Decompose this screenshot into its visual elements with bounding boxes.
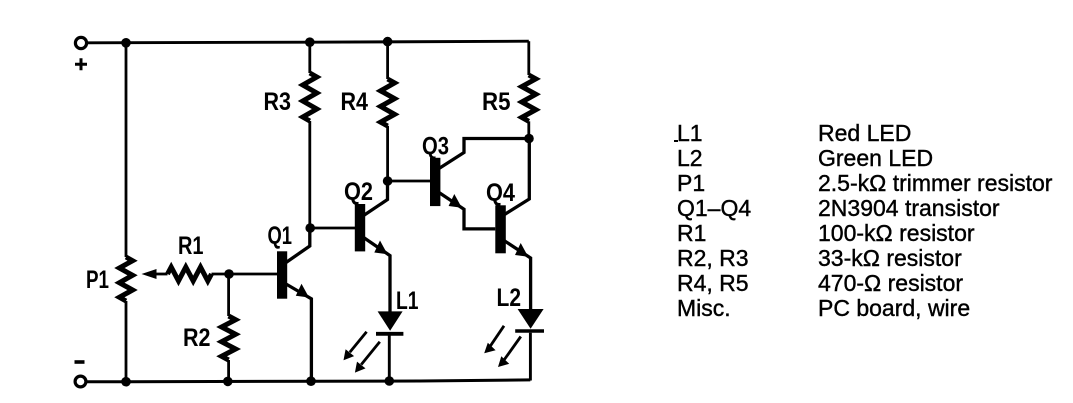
resistor R5 [522, 41, 536, 138]
wire left vertical lower [125, 301, 128, 382]
transistor Q3 [430, 139, 529, 229]
terminal + (positive supply) [75, 37, 87, 70]
node Q1 collector / Q2 base junction [305, 223, 315, 233]
wire top rail [87, 41, 529, 43]
LED L2 [484, 309, 544, 381]
transistor Q2 [355, 181, 390, 312]
potentiometer P1 [119, 257, 167, 301]
LED L1 [344, 311, 404, 381]
node Q2 collector / Q3 base junction [383, 176, 393, 186]
terminal - (negative supply) [75, 362, 86, 387]
svg-text:Q3: Q3 [422, 133, 449, 161]
svg-text:R2: R2 [183, 324, 211, 352]
svg-text:R4: R4 [341, 88, 369, 116]
resistor R1 [168, 267, 278, 281]
scan speck before L1 [674, 140, 679, 142]
wire Q3 base [388, 180, 431, 183]
node bottom-left junction [121, 377, 131, 387]
node top R3 junction [305, 37, 315, 47]
resistor R3 [303, 42, 317, 228]
node top R4 junction [383, 37, 393, 47]
wire Q2 base [310, 227, 355, 230]
transistor Q4 [495, 139, 530, 310]
svg-text:R5: R5 [482, 88, 511, 116]
node bottom Q1 emitter junction [306, 376, 316, 386]
transistor Q1 [277, 228, 311, 381]
wire bottom rail [86, 380, 530, 382]
node R5/Q3/Q4 collector junction [524, 134, 534, 144]
svg-text:R1: R1 [178, 232, 204, 260]
resistor R4 [381, 42, 395, 181]
svg-text:L1: L1 [396, 287, 419, 315]
wire left vertical [125, 43, 128, 257]
parts list designators column [677, 121, 751, 321]
resistor R2 [222, 274, 236, 382]
svg-text:Q1: Q1 [268, 222, 293, 250]
svg-text:P1: P1 [86, 266, 109, 294]
node R1/R2/Q1 base junction [224, 269, 234, 279]
svg-text:R3: R3 [264, 88, 292, 116]
svg-text:Q2: Q2 [344, 178, 373, 206]
svg-text:L2: L2 [497, 284, 522, 312]
node bottom L1 junction [385, 376, 395, 386]
parts list descriptions column [818, 121, 1052, 321]
svg-text:Q4: Q4 [486, 179, 515, 207]
node top-left junction [121, 38, 131, 48]
node bottom R2 junction [223, 377, 233, 387]
